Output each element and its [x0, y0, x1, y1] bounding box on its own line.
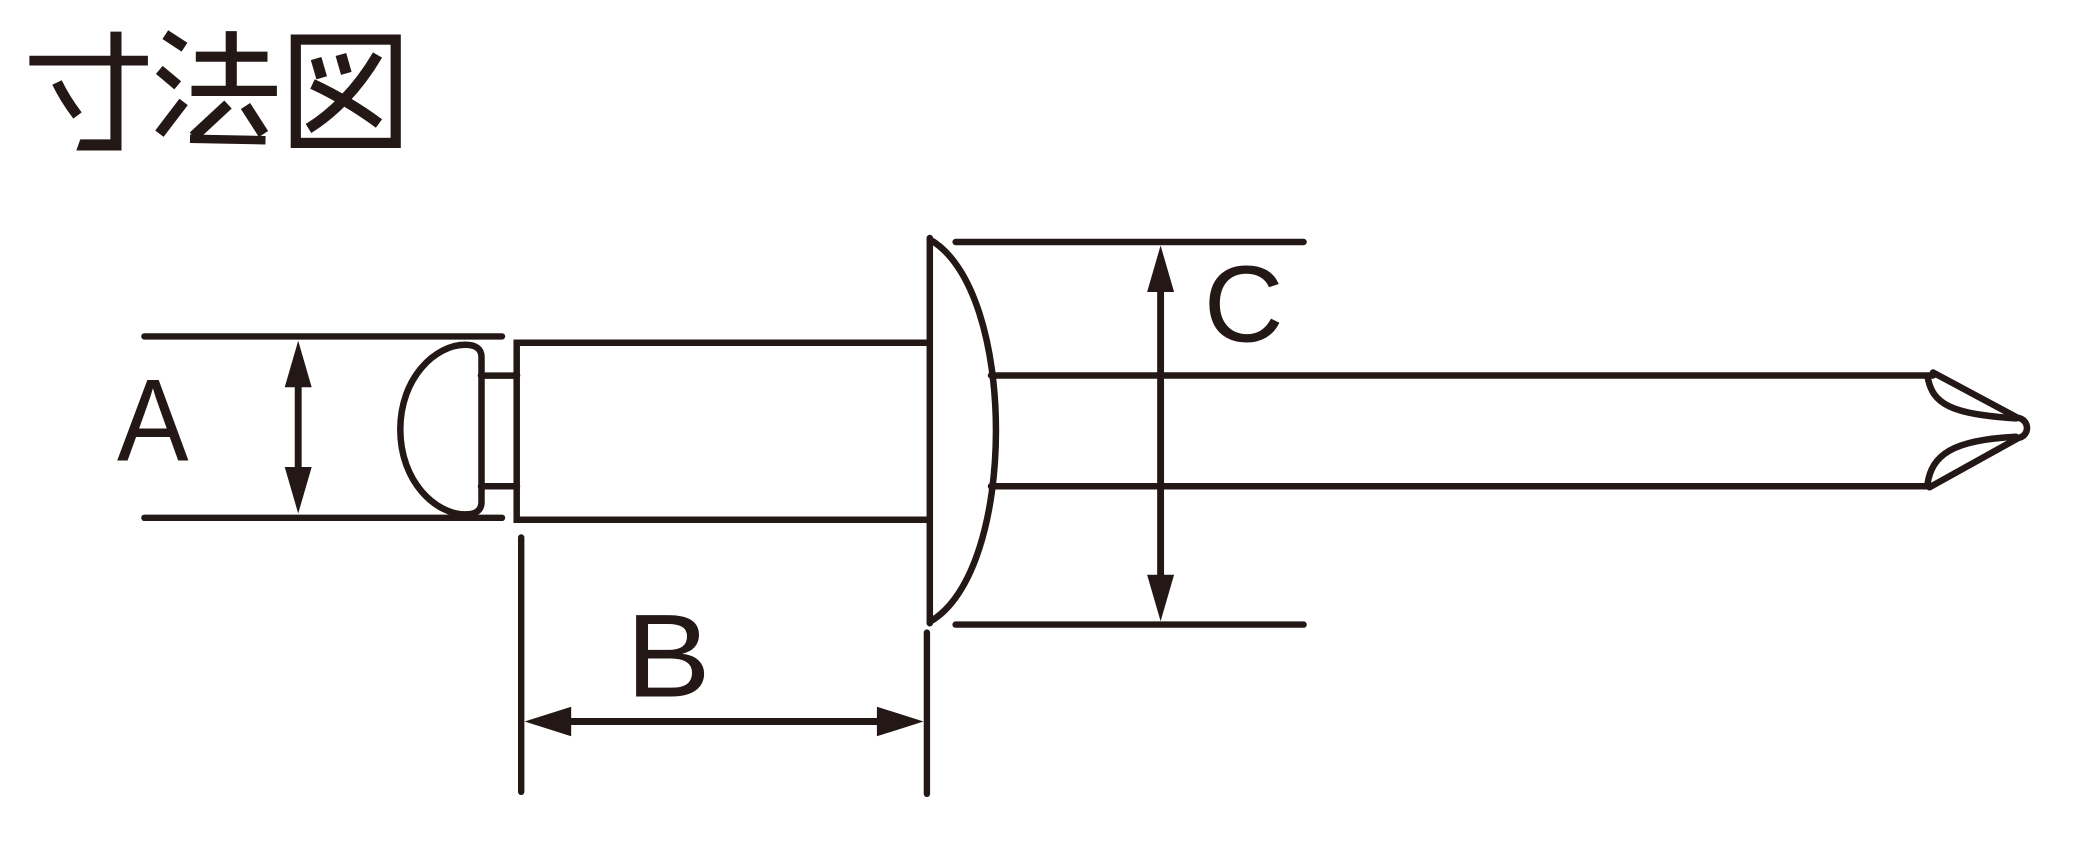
rivet body: [517, 343, 929, 520]
mandrel head dome: [400, 345, 481, 515]
mandrel tip lower facet curve: [1928, 437, 2017, 484]
mandrel tip upper facet curve: [1928, 376, 2017, 418]
svg-text:C: C: [1204, 243, 1284, 365]
mandrel pin top line: [991, 372, 1933, 379]
svg-text:A: A: [117, 355, 189, 486]
dimension C arrow: [1147, 246, 1174, 622]
dimension A arrow: [285, 341, 312, 514]
title kanji HOU (法): [159, 31, 277, 140]
dimension C top extension line: [956, 239, 1304, 245]
mandrel neck bottom line: [481, 483, 517, 490]
dimension C bottom extension line: [956, 621, 1304, 627]
mandrel tip outline: [1930, 373, 2028, 488]
title kanji SUN (寸): [29, 32, 147, 151]
mandrel pin bottom line: [991, 483, 1930, 490]
dimension A top extension line: [144, 333, 502, 339]
dimension A bottom extension line: [144, 515, 502, 521]
dimension B arrow: [525, 707, 924, 737]
svg-text:B: B: [626, 591, 711, 723]
title kanji ZU (図): [296, 40, 396, 143]
dimension B left extension line: [518, 538, 524, 792]
mandrel neck top line: [481, 372, 517, 379]
dimension B right extension line: [924, 633, 930, 794]
flange: [930, 238, 996, 623]
